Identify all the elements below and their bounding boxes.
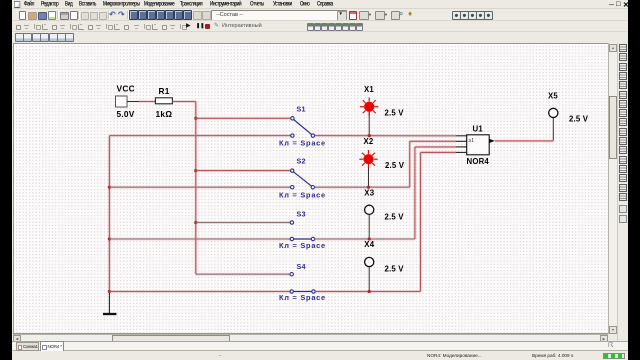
svg-text:Кл = Space: Кл = Space <box>279 139 326 148</box>
svg-text:S3: S3 <box>297 209 306 218</box>
svg-text:X5: X5 <box>548 91 558 100</box>
svg-text:Кл = Space: Кл = Space <box>279 191 326 200</box>
svg-text:S1: S1 <box>297 104 306 113</box>
svg-text:X3: X3 <box>364 188 374 197</box>
svg-text:2.5 V: 2.5 V <box>569 114 589 123</box>
svg-text:NOR4: NOR4 <box>467 157 490 166</box>
svg-text:VCC: VCC <box>117 84 135 94</box>
svg-text:S2: S2 <box>297 157 306 166</box>
svg-text:5.0V: 5.0V <box>117 109 135 119</box>
svg-text:Кл = Space: Кл = Space <box>279 241 326 250</box>
svg-text:2.5 V: 2.5 V <box>385 161 405 170</box>
svg-text:U1: U1 <box>473 125 484 134</box>
svg-text:R1: R1 <box>159 86 170 96</box>
svg-text:X2: X2 <box>364 137 374 146</box>
svg-text:1kΩ: 1kΩ <box>156 109 173 119</box>
svg-text:≥1: ≥1 <box>469 138 475 144</box>
svg-text:2.5 V: 2.5 V <box>385 264 405 273</box>
svg-text:2.5 V: 2.5 V <box>385 213 405 222</box>
svg-text:X1: X1 <box>364 85 374 94</box>
svg-text:2.5 V: 2.5 V <box>385 109 405 118</box>
svg-text:S4: S4 <box>297 262 306 271</box>
svg-text:Кл = Space: Кл = Space <box>279 293 326 302</box>
svg-text:X4: X4 <box>364 240 374 249</box>
